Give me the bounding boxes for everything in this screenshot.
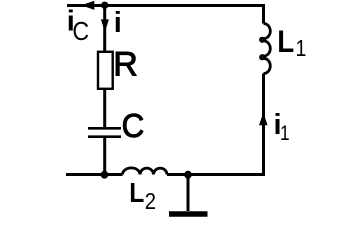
svg-text:R: R	[113, 45, 138, 83]
ground	[187, 175, 190, 212]
wire top horizontal + right vertical upper	[67, 6, 264, 24]
node junction bottom-left	[101, 171, 109, 179]
wire capacitor to bottom	[103, 138, 106, 175]
svg-text:L: L	[277, 24, 294, 59]
svg-text:C: C	[122, 107, 145, 144]
resistor R	[98, 52, 113, 89]
arrow i1 (up)	[259, 113, 268, 126]
wire bottom horizontal left stub	[66, 173, 123, 176]
wire resistor to capacitor	[103, 89, 106, 127]
wire left vertical (junction to resistor)	[103, 6, 106, 52]
capacitor C	[88, 128, 121, 136]
svg-text:1: 1	[296, 36, 307, 62]
svg-text:2: 2	[145, 188, 156, 215]
inductor L1	[261, 24, 271, 74]
svg-text:C: C	[72, 18, 89, 47]
inductor L2	[123, 168, 168, 175]
arrow i (down)	[101, 19, 109, 32]
node junction bottom-right	[184, 171, 192, 179]
arrow iC (left, on top wire)	[81, 1, 94, 10]
svg-text:1: 1	[280, 122, 290, 145]
wire right vertical lower + bottom right horizontal	[167, 74, 264, 175]
node junction top (A)	[101, 2, 108, 9]
svg-text:i: i	[114, 7, 122, 39]
svg-text:L: L	[129, 177, 144, 209]
